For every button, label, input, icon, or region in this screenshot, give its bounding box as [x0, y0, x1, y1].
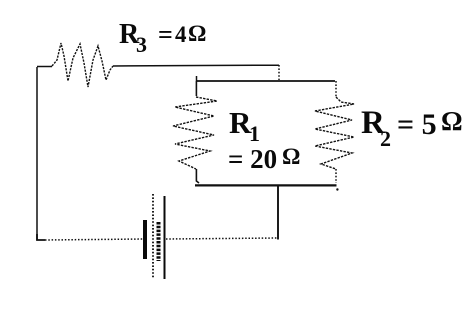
svg-text:1: 1 [249, 121, 260, 146]
wire middle vertical [277, 186, 279, 240]
battery plate short thick dashed [157, 222, 161, 261]
wire R2 bottom stub (dotted) [335, 169, 337, 183]
svg-text:Ω: Ω [188, 21, 206, 46]
label R1 value = 20 ohm [228, 144, 300, 174]
wire top left horizontal [37, 66, 52, 68]
svg-text:3: 3 [136, 32, 147, 57]
svg-text:Ω: Ω [441, 106, 463, 136]
svg-text:= 20: = 20 [228, 144, 277, 174]
wire bottom left (dotted) [45, 239, 144, 240]
wire parallel bottom rail [195, 184, 337, 186]
resistor R1 [173, 97, 217, 169]
battery plate long solid [164, 196, 166, 279]
wire parallel top rail [196, 80, 335, 82]
wire top right horizontal [113, 64, 279, 67]
wire rail corner overshoot tick [196, 76, 198, 81]
wire R1 bottom stub [196, 169, 199, 183]
svg-text:= 5: = 5 [397, 108, 437, 141]
battery plate short thick left [143, 220, 147, 259]
resistor R2 [315, 97, 354, 169]
node dot below rail right end [336, 188, 338, 190]
wire drop to parallel rail (dotted) [278, 65, 280, 80]
svg-text:Ω: Ω [282, 144, 300, 169]
resistor R3 [52, 43, 113, 87]
wire bottom right (dotted) [166, 238, 278, 239]
svg-text:2: 2 [380, 126, 391, 151]
wire R2 top stub (dotted) [335, 81, 337, 97]
wire R1 top stub [195, 81, 197, 96]
label R2 = 5 ohm [361, 105, 463, 151]
battery plate long dotted [152, 194, 154, 279]
wire bottom left corner elbow [37, 234, 45, 240]
label R1 [229, 105, 260, 146]
label R3 = 4 ohm [119, 19, 206, 57]
svg-text:4: 4 [175, 22, 187, 47]
wire left vertical [36, 67, 38, 240]
svg-text:=: = [158, 20, 173, 49]
